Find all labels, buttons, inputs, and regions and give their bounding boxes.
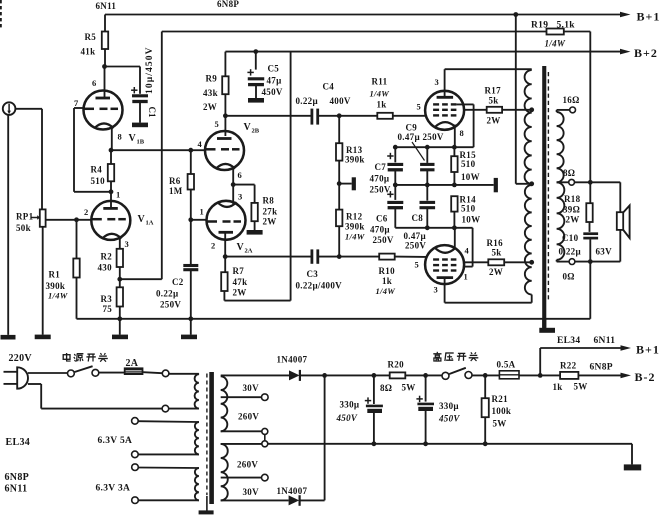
node R3 ground <box>117 316 122 321</box>
resistor R9 43k <box>224 52 226 77</box>
svg-text:0.22µ: 0.22µ <box>156 289 179 299</box>
HV switch <box>442 372 449 379</box>
OPT secondary upper <box>557 112 564 182</box>
svg-text:400V: 400V <box>330 96 351 106</box>
PT ground stem <box>206 496 208 511</box>
svg-text:2W: 2W <box>487 116 501 126</box>
svg-text:47µ: 47µ <box>267 76 283 86</box>
tube V2B <box>205 131 244 170</box>
svg-text:6N8P: 6N8P <box>590 363 613 373</box>
svg-text:B+1: B+1 <box>636 343 660 357</box>
svg-text:EL34: EL34 <box>557 336 580 346</box>
svg-text:470µ: 470µ <box>370 225 390 235</box>
wire lower cathode lead <box>454 228 456 247</box>
ground C1 <box>132 123 148 128</box>
node V1A plate <box>109 189 114 194</box>
wire upper cathode lead <box>454 125 456 148</box>
wire R20 to cap2 <box>405 374 442 376</box>
svg-text:V: V <box>237 242 245 253</box>
node V1 coupling <box>109 148 114 153</box>
node 8ohm feedback <box>588 180 593 185</box>
OPT secondary lower <box>557 182 565 259</box>
svg-text:1: 1 <box>116 190 121 200</box>
svg-text:6: 6 <box>238 170 243 180</box>
wire upper plate <box>444 69 446 96</box>
svg-text:R17: R17 <box>485 86 502 96</box>
svg-text:1B: 1B <box>137 139 145 146</box>
svg-text:0.22µ/400V: 0.22µ/400V <box>296 281 343 291</box>
svg-text:R10: R10 <box>379 266 396 276</box>
svg-text:5W: 5W <box>574 382 588 392</box>
svg-text:1N4007: 1N4007 <box>277 355 308 365</box>
svg-text:510: 510 <box>461 159 476 169</box>
wire V2B plate to C4 <box>225 115 311 117</box>
svg-text:250V: 250V <box>370 185 391 195</box>
svg-text:4: 4 <box>465 246 470 256</box>
node B+1/OPT-CT junction <box>513 12 518 17</box>
ground RP1 <box>35 335 51 340</box>
wire to C3 <box>225 256 311 258</box>
wire 0ohm line <box>556 260 558 262</box>
wire HV bottom to D2 <box>221 499 289 501</box>
node C7 top <box>393 145 398 150</box>
wire D2 out <box>300 499 325 501</box>
wire 6.3V5A top <box>138 420 199 423</box>
ground C2 <box>181 335 197 340</box>
wire plug top <box>28 372 68 374</box>
wire CT lower <box>221 443 262 445</box>
tube V2A inverted <box>207 201 246 240</box>
PT 6.3V3A coil <box>195 468 199 500</box>
wire feedback line <box>162 31 547 33</box>
terminal primary bottom <box>162 405 169 412</box>
wire to R22 <box>540 374 560 376</box>
svg-text:8: 8 <box>460 128 465 138</box>
svg-text:V: V <box>129 133 137 144</box>
node V2B plate <box>223 113 228 118</box>
OPT primary lower <box>525 185 532 295</box>
terminal 6.3V3A top <box>132 464 139 471</box>
node rectifier join <box>322 373 327 378</box>
wire plug bottom <box>28 383 41 385</box>
PT HV coil lower <box>221 444 228 500</box>
node common cathode <box>231 182 236 187</box>
node R12 bottom <box>337 254 342 259</box>
OPT core solid <box>542 66 546 329</box>
svg-text:5W: 5W <box>402 383 416 393</box>
svg-text:R18: R18 <box>564 194 581 204</box>
wire V1B cathode lead <box>111 126 113 150</box>
svg-text:1M: 1M <box>169 186 183 196</box>
resistor R14 510 10W <box>451 196 457 211</box>
svg-text:5W: 5W <box>493 419 507 429</box>
svg-text:75: 75 <box>103 304 113 314</box>
svg-text:27k: 27k <box>263 207 278 217</box>
svg-text:2W: 2W <box>263 217 277 227</box>
svg-text:390k: 390k <box>345 222 365 232</box>
tube EL34 lower inverted <box>425 245 464 284</box>
node cap2 top <box>423 373 428 378</box>
wire B+1 to CT <box>515 15 517 184</box>
svg-text:R4: R4 <box>91 165 103 175</box>
svg-text:30V: 30V <box>243 383 260 393</box>
svg-text:R7: R7 <box>233 266 245 276</box>
node upper cathode <box>452 145 457 150</box>
terminal 6.3V3A bottom <box>132 497 139 504</box>
svg-text:8Ω: 8Ω <box>563 168 575 178</box>
svg-text:1/4W: 1/4W <box>545 39 566 49</box>
wire 0ohm to ground rail <box>589 262 591 319</box>
wire V2B plate lead <box>224 116 226 136</box>
wire speaker bottom <box>619 230 621 262</box>
svg-text:450V: 450V <box>262 87 283 97</box>
potentiometer RP1 <box>40 209 46 226</box>
wire CT upper <box>221 430 262 432</box>
resistor R8 27k <box>233 184 254 186</box>
wire R16 to UL tap <box>504 261 532 263</box>
node R21 top <box>483 373 488 378</box>
svg-text:50k: 50k <box>16 223 31 233</box>
label gaoya-kaiguan (HV switch) <box>436 352 438 354</box>
wire upper g3 link <box>456 103 473 105</box>
svg-text:R13: R13 <box>346 145 363 155</box>
svg-text:5k: 5k <box>492 248 502 258</box>
svg-text:C9: C9 <box>406 123 418 133</box>
terminal primary top <box>162 370 169 377</box>
ground OPT core <box>542 319 546 328</box>
wire R22 to B-2 <box>578 374 620 376</box>
bias tap bar left <box>339 183 352 185</box>
node feedback/R3 <box>117 277 122 282</box>
svg-text:6N8P: 6N8P <box>217 0 239 9</box>
svg-text:7: 7 <box>74 98 79 108</box>
svg-text:C4: C4 <box>323 82 335 92</box>
svg-text:R5: R5 <box>85 32 97 42</box>
resistor R11 1k <box>377 113 393 119</box>
svg-text:0.22µ: 0.22µ <box>559 247 582 257</box>
svg-text:1N4007: 1N4007 <box>277 486 308 496</box>
wire D1 out <box>300 374 374 376</box>
arrow B+2 <box>620 49 631 55</box>
svg-text:2A: 2A <box>245 248 253 255</box>
terminal 8ohm <box>569 179 575 185</box>
node R21 bottom <box>483 441 488 446</box>
arrow B-2 <box>621 373 632 379</box>
node cap1 bottom <box>372 441 377 446</box>
wire mid cathode line <box>395 184 493 186</box>
capacitor C8 0.47u <box>426 185 428 201</box>
resistor R12 390k <box>336 210 342 227</box>
svg-text:C10: C10 <box>562 233 579 243</box>
svg-text:6: 6 <box>92 78 97 88</box>
svg-text:1: 1 <box>464 272 469 282</box>
svg-text:R16: R16 <box>487 238 504 248</box>
arrow B+1 <box>620 12 631 18</box>
svg-text:C8: C8 <box>412 213 424 223</box>
node R6 top <box>188 148 193 153</box>
wire 6.3V3A top <box>138 467 199 470</box>
svg-text:1/4W: 1/4W <box>345 232 366 242</box>
svg-text:EL34: EL34 <box>6 437 31 448</box>
svg-text:430: 430 <box>98 263 113 273</box>
capacitor C9 0.47u <box>426 147 428 163</box>
svg-text:8: 8 <box>118 132 123 142</box>
resistor R3 <box>119 279 121 287</box>
node C7 bottom <box>393 183 398 188</box>
wire B+1 rail <box>105 14 620 16</box>
wire C2 ground stub <box>190 319 192 335</box>
capacitor C2 0.22u <box>190 220 192 264</box>
svg-text:B+2: B+2 <box>634 46 658 60</box>
wire B+1 to R5 <box>104 15 106 32</box>
wire upper cathode line <box>395 146 473 148</box>
node C9 top <box>425 145 430 150</box>
svg-text:2W: 2W <box>566 215 580 225</box>
svg-text:0.5A: 0.5A <box>497 360 516 370</box>
svg-text:43k: 43k <box>203 88 218 98</box>
label dianyuan-kaiguan (power switch) <box>66 353 68 361</box>
node B+1 branch <box>538 373 543 378</box>
svg-text:1k: 1k <box>382 276 392 286</box>
wire V2B grid <box>191 149 206 151</box>
wire upper g2 to R17 <box>463 109 486 111</box>
terminal CT lower <box>262 441 268 447</box>
wire CT rail <box>268 443 632 445</box>
svg-text:C1: C1 <box>147 107 157 118</box>
wire feedback riser <box>120 278 162 280</box>
wire switch to R21 node <box>472 374 499 376</box>
wire jack to RP1 <box>15 108 42 110</box>
svg-text:2W: 2W <box>233 288 247 298</box>
terminal 16ohm <box>570 107 576 113</box>
wire fuse to primary <box>143 372 162 373</box>
capacitor C3 0.22u 400V <box>310 249 313 263</box>
wire jack sleeve <box>7 115 9 335</box>
svg-text:1: 1 <box>200 207 205 217</box>
svg-text:3: 3 <box>125 239 130 249</box>
terminal 0ohm <box>569 259 575 265</box>
PT HV coil upper <box>221 376 228 431</box>
svg-text:330µ: 330µ <box>340 400 360 410</box>
svg-text:5: 5 <box>415 260 420 270</box>
svg-text:R2: R2 <box>101 252 113 262</box>
svg-text:5: 5 <box>417 102 422 112</box>
wire R3 ground stub <box>119 319 121 335</box>
svg-text:R1: R1 <box>49 270 61 280</box>
svg-text:C6: C6 <box>376 214 388 224</box>
resistor R15 510 10W <box>453 147 455 156</box>
wire RP1 to ground <box>42 227 44 335</box>
wire 6.3V3A bottom <box>138 499 199 501</box>
wire R2 to node <box>119 267 121 279</box>
svg-text:R3: R3 <box>101 294 113 304</box>
resistor R1 390k <box>76 220 78 259</box>
svg-text:1/4W: 1/4W <box>370 89 391 99</box>
ground C5 <box>248 98 264 103</box>
wire rectifier riser <box>324 375 326 500</box>
PT primary coil <box>198 373 200 375</box>
resistor R19 <box>547 29 564 35</box>
svg-text:390k: 390k <box>345 155 365 165</box>
wire V2A plate lead <box>224 233 226 257</box>
wire C4 to R11 <box>318 115 378 117</box>
wire 8ohm line <box>557 181 569 183</box>
PT core solid <box>209 372 214 504</box>
resistor R6 1M <box>190 150 192 174</box>
capacitor C4 0.22u 400V <box>310 109 313 125</box>
resistor R4 <box>110 150 112 164</box>
svg-text:RP1: RP1 <box>16 212 34 222</box>
svg-text:1k: 1k <box>377 100 387 110</box>
svg-text:63V: 63V <box>596 247 613 257</box>
terminal 6.3V5A bottom <box>132 451 139 458</box>
ground jack <box>1 335 16 340</box>
svg-text:6N11: 6N11 <box>5 484 28 495</box>
svg-text:6.3V 3A: 6.3V 3A <box>96 484 131 494</box>
svg-text:330µ: 330µ <box>439 401 459 411</box>
svg-text:C3: C3 <box>307 269 319 279</box>
svg-text:3: 3 <box>435 77 440 87</box>
mains plug <box>17 367 28 388</box>
svg-text:16Ω: 16Ω <box>563 95 580 105</box>
OPT primary upper <box>525 70 532 184</box>
svg-text:5.1k: 5.1k <box>557 21 576 31</box>
resistor R17 5k <box>487 107 502 113</box>
bias tap bar right <box>494 178 498 192</box>
svg-text:8Ω: 8Ω <box>380 383 392 393</box>
svg-text:470µ: 470µ <box>370 174 390 184</box>
svg-text:B+1: B+1 <box>637 10 660 24</box>
wire 30V tap <box>221 396 262 398</box>
svg-text:6N11: 6N11 <box>594 336 616 346</box>
capacitor C5 47u <box>255 52 257 70</box>
svg-text:1k: 1k <box>553 382 563 392</box>
svg-text:5: 5 <box>215 119 220 129</box>
wire B+2 rail <box>225 51 620 53</box>
svg-text:10W: 10W <box>461 172 480 182</box>
svg-text:C7: C7 <box>375 162 387 172</box>
svg-text:3: 3 <box>434 285 439 295</box>
diode D2 1N4007 <box>289 495 300 505</box>
wire 16ohm tap <box>556 110 558 112</box>
wire CT link <box>264 434 266 440</box>
svg-text:R21: R21 <box>492 394 509 404</box>
PT core dashed <box>206 374 208 496</box>
svg-text:2W: 2W <box>489 267 503 277</box>
svg-text:B-2: B-2 <box>635 370 656 384</box>
svg-text:30V: 30V <box>243 487 260 497</box>
svg-text:C2: C2 <box>172 277 184 287</box>
svg-text:47k: 47k <box>233 277 248 287</box>
svg-text:510: 510 <box>461 204 476 214</box>
svg-text:R8: R8 <box>263 196 275 206</box>
node C8 bottom <box>425 225 430 230</box>
svg-text:1/4W: 1/4W <box>48 291 69 301</box>
wire fuse to B node <box>519 374 540 376</box>
svg-text:R11: R11 <box>372 77 388 87</box>
capacitor C1 10u/450V <box>131 89 137 91</box>
wire R13-R12 junction <box>338 161 340 210</box>
svg-text:0.22µ: 0.22µ <box>296 96 319 106</box>
svg-text:100k: 100k <box>492 406 512 416</box>
terminal 6.3V5A top <box>132 418 139 425</box>
wire speaker top <box>619 182 621 212</box>
node V1B plate <box>102 64 107 69</box>
wire ground rail <box>77 318 591 320</box>
svg-text:510: 510 <box>91 176 106 186</box>
svg-text:220V: 220V <box>9 353 33 364</box>
OPT core lamination dashed <box>547 72 549 300</box>
wire R11 to EL34 grid <box>393 115 426 117</box>
svg-text:2: 2 <box>211 241 216 251</box>
svg-text:0Ω: 0Ω <box>563 272 575 282</box>
svg-text:260V: 260V <box>237 460 258 470</box>
terminal 30V tap <box>262 394 269 401</box>
ground R8 <box>247 230 263 235</box>
node V1A grid / R1 <box>74 217 79 222</box>
svg-text:R22: R22 <box>560 361 577 371</box>
svg-text:10µ/450V: 10µ/450V <box>145 46 155 94</box>
svg-text:41k: 41k <box>81 47 96 57</box>
svg-text:V: V <box>244 122 252 133</box>
node bias tap left <box>337 181 342 186</box>
wire rail to ground <box>631 444 633 465</box>
ground PT core <box>199 510 214 514</box>
arrow B+1 bottom <box>621 345 632 351</box>
ground bottom right <box>624 464 641 470</box>
terminal 260V tap <box>262 474 269 481</box>
svg-text:5k: 5k <box>489 96 499 106</box>
resistor R22 1k <box>560 372 578 379</box>
svg-text:C5: C5 <box>268 64 280 74</box>
resistor R13 390k <box>338 116 340 143</box>
wire B+1 branch <box>539 348 541 375</box>
wire R10 to lower grid <box>395 256 427 258</box>
wire V1A plate lead <box>110 192 112 209</box>
terminal CT upper <box>262 428 268 434</box>
svg-text:390k: 390k <box>46 281 66 291</box>
svg-text:250V: 250V <box>160 300 181 310</box>
node C9 bottom <box>425 183 430 188</box>
svg-text:2A: 2A <box>126 358 139 369</box>
wire lower cathode line <box>395 227 472 229</box>
resistor R18 39ohm <box>589 182 591 203</box>
node cap1 top <box>372 373 377 378</box>
wire HV top to D1 <box>221 374 289 376</box>
capacitor PS C12 330u <box>425 375 427 401</box>
diode D1 1N4007 <box>289 370 300 380</box>
node C5 top <box>253 49 258 54</box>
capacitor C6 470u <box>394 185 396 200</box>
svg-text:250V: 250V <box>373 235 394 245</box>
svg-text:6.3V 5A: 6.3V 5A <box>98 436 133 446</box>
ground bar OPT <box>539 328 555 333</box>
wire primary top to coil <box>169 373 199 375</box>
svg-text:0.47µ 250V: 0.47µ 250V <box>398 132 444 142</box>
resistor R20 8ohm <box>390 372 406 378</box>
wire V1A cathode lead <box>119 237 121 249</box>
node C2 ground <box>188 316 193 321</box>
tube EL34 upper <box>425 91 464 130</box>
svg-text:1A: 1A <box>146 220 154 227</box>
node UL tap lower <box>529 260 534 265</box>
capacitor C7 470u <box>394 147 396 162</box>
wire plate lead V1B <box>104 67 106 98</box>
svg-text:10W: 10W <box>462 215 481 225</box>
fuse 0.5A <box>499 371 519 379</box>
svg-text:450V: 450V <box>336 413 358 423</box>
resistor R5 <box>102 32 108 50</box>
